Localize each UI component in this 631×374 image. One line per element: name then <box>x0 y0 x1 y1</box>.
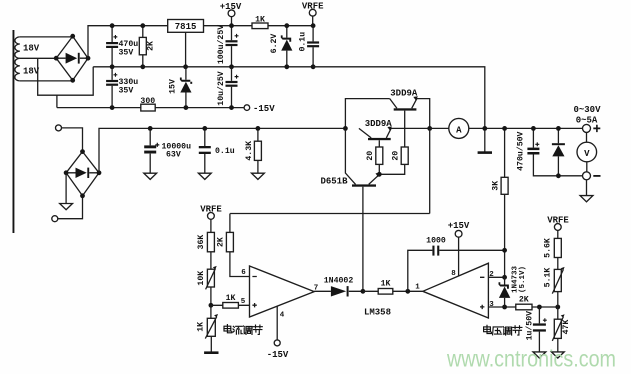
resistor 20 (right) <box>377 111 408 177</box>
svg-text:LM358: LM358 <box>364 307 391 317</box>
svg-text:D651B: D651B <box>320 177 348 187</box>
transistor Q3 D651B <box>320 128 380 186</box>
potentiometer 47K <box>552 307 571 352</box>
resistor 1K (between op-amps) <box>363 280 423 294</box>
regulator U2 7815 <box>168 20 204 70</box>
svg-text:20: 20 <box>366 151 375 161</box>
resistor 2K <box>139 23 155 69</box>
op-amp U1A <box>250 266 315 317</box>
terminal VRFE (mid) <box>200 205 222 233</box>
ground at 4.3K <box>252 173 265 179</box>
transformer winding 18V (bottom) <box>15 58 40 81</box>
ground below - output <box>580 180 593 202</box>
svg-text:35V: 35V <box>119 87 134 96</box>
wire bridge1 + output up to +raw rail <box>88 26 168 59</box>
resistor 300 <box>140 97 155 111</box>
ground at 10000u <box>144 173 157 179</box>
potentiometer 1K (current set) <box>197 305 219 354</box>
capacitor 100u/25V <box>216 25 239 69</box>
transformer core <box>13 30 15 233</box>
svg-text:1K: 1K <box>381 280 391 289</box>
zener diode 15V <box>169 67 193 110</box>
wire 0V common over to output rail <box>313 67 485 129</box>
svg-text:2K: 2K <box>147 41 156 51</box>
ground at bridge2 <box>60 173 73 210</box>
svg-text:3: 3 <box>489 301 494 309</box>
svg-text:0~30V: 0~30V <box>573 105 601 115</box>
wire center tap down and over to mid rail <box>38 58 93 95</box>
svg-text:1N4002: 1N4002 <box>324 276 354 285</box>
potentiometer 10K <box>197 266 217 308</box>
label 4.3K <box>245 126 260 161</box>
pin labels U1B: 1 2 3 8 <box>415 270 494 309</box>
wire ammeter to + output <box>469 126 583 131</box>
wire U1 pin4 to -15V <box>267 307 289 360</box>
svg-text:4: 4 <box>280 312 285 320</box>
svg-text:www.cntronics.com: www.cntronics.com <box>446 346 616 372</box>
svg-text:VRFE: VRFE <box>302 2 324 12</box>
wire feedback loop (2K top to output rail) <box>230 128 430 213</box>
svg-text:2K: 2K <box>519 296 529 305</box>
svg-text:15V: 15V <box>169 79 178 94</box>
svg-text:8: 8 <box>451 270 456 278</box>
svg-text:1K: 1K <box>255 16 265 25</box>
terminal - output <box>583 172 601 180</box>
terminal AC input b <box>52 196 83 222</box>
capacitor 1000 (feedback) <box>408 237 505 292</box>
pin labels U1A: 6 5 7 4 <box>241 269 319 320</box>
resistor 2K (voltage set) <box>516 296 560 310</box>
svg-text:-15V: -15V <box>267 350 289 360</box>
chassis bar below ammeter node <box>478 128 492 154</box>
wire winding1 top to bridge1 top corner <box>20 35 73 38</box>
resistor 20 (left) <box>366 140 383 174</box>
resistor 3K <box>491 126 508 250</box>
zener diode 6.2V <box>270 23 293 69</box>
wire pin6 to 2K <box>230 252 250 277</box>
wire output rail Q2 emitter to ammeter <box>391 127 449 129</box>
svg-text:18V: 18V <box>23 44 40 54</box>
label current-adjust (dian liu tiao jie) <box>224 325 262 335</box>
terminal AC input a <box>56 125 83 152</box>
svg-text:63V: 63V <box>166 151 181 160</box>
transistor Q1 3DD9A (upper) <box>390 89 418 111</box>
capacitor 10000u/63V <box>144 128 156 173</box>
capacitor 0.1u (control) <box>299 26 320 70</box>
resistor 36K <box>197 232 215 269</box>
capacitor 1u/50V <box>524 307 547 352</box>
svg-text:VRFE: VRFE <box>547 215 569 225</box>
capacitor 10u/25V <box>216 67 239 110</box>
svg-text:0.1u: 0.1u <box>215 147 235 156</box>
svg-text:6.2V: 6.2V <box>270 34 279 54</box>
potentiometer 5.1K <box>544 267 565 307</box>
bridge rectifier B1 <box>54 34 91 83</box>
svg-text:10K: 10K <box>197 271 206 286</box>
wire raw rail from 7815 to +15V node <box>204 25 253 27</box>
svg-text:0.1u: 0.1u <box>299 32 308 52</box>
label 0~30V 0~5A <box>573 105 601 126</box>
wire U1B pin3 row <box>488 305 515 310</box>
svg-text:1K: 1K <box>226 294 236 303</box>
wire branch down to -15V bottom rail <box>56 95 58 107</box>
watermark <box>446 346 616 372</box>
capacitor 0.1u (main) <box>199 128 211 173</box>
wire -15V bottom rail <box>57 107 244 109</box>
resistor 4.3K <box>254 128 261 173</box>
svg-text:470u/50V: 470u/50V <box>515 131 525 170</box>
transistor Q2 3DD9A (lower) <box>359 119 392 140</box>
label 10000u/63V <box>148 126 191 160</box>
svg-text:3DD9A: 3DD9A <box>390 89 418 99</box>
svg-text:5.1K: 5.1K <box>544 268 553 288</box>
wire center tap to bridge1 left corner <box>20 57 56 59</box>
op-amp U1B <box>423 263 489 318</box>
transformer winding 18V (top) <box>15 37 40 58</box>
label voltage-adjust (dian ya tiao jie) <box>484 325 522 335</box>
terminal + output <box>583 124 601 132</box>
resistor 1K (on +15V rail) <box>252 16 268 29</box>
wire Q3 base down to op-amp U1 output node <box>362 187 364 292</box>
ground at 47K <box>551 352 564 358</box>
svg-text:47K: 47K <box>562 320 571 335</box>
svg-text:10u/25V: 10u/25V <box>216 71 226 105</box>
svg-text:V: V <box>584 149 590 159</box>
svg-text:1u/50V: 1u/50V <box>524 311 534 341</box>
svg-text:5: 5 <box>241 298 246 306</box>
svg-text:(5.1V): (5.1V) <box>519 266 527 293</box>
svg-text:300: 300 <box>140 97 155 106</box>
svg-text:VRFE: VRFE <box>200 205 222 215</box>
bridge rectifier B2 <box>64 149 102 198</box>
svg-text:+15V: +15V <box>220 2 242 12</box>
wire 0V mid rail <box>93 66 313 68</box>
resistor 5.6K <box>544 238 562 269</box>
zener diode 1N4733 (5.1V) <box>499 266 528 307</box>
terminal -15V <box>244 104 275 114</box>
wire +15V rail from 1K to VRFE/0.1u <box>268 25 313 27</box>
resistor 2K (feedback) <box>217 214 234 252</box>
svg-text:1000: 1000 <box>426 237 446 246</box>
terminal +15V <box>220 2 242 28</box>
ground at 1u/50V <box>533 352 546 358</box>
wire winding2 bottom to bridge1 bottom corner <box>20 80 73 82</box>
wire Q1 emitter to output rail <box>417 99 432 131</box>
diode 1N4002 <box>314 276 365 296</box>
svg-text:3K: 3K <box>491 181 500 191</box>
terminal VRFE (top) <box>302 2 324 29</box>
ammeter A <box>449 118 469 138</box>
wire Q1 collector to common collector node <box>343 99 390 131</box>
svg-text:0~5A: 0~5A <box>576 116 598 126</box>
resistor 1K (to pin5) <box>211 294 250 308</box>
capacitor 470u/50V <box>515 126 582 176</box>
terminal +15V (U1B pin8) <box>448 221 470 276</box>
svg-text:3DD9A: 3DD9A <box>365 119 393 129</box>
terminal VRFE (right) <box>547 215 569 238</box>
capacitor 470u/35V <box>106 23 138 69</box>
svg-text:6: 6 <box>241 269 246 277</box>
svg-text:20: 20 <box>392 151 401 161</box>
capacitor 330u/35V <box>106 67 138 110</box>
wire bridge2 + up to main rail <box>99 128 345 172</box>
svg-text:4.3K: 4.3K <box>245 141 254 161</box>
svg-text:-15V: -15V <box>253 104 275 114</box>
svg-text:7815: 7815 <box>175 22 197 32</box>
label 0.1u <box>202 126 234 156</box>
voltmeter V <box>577 132 597 171</box>
svg-text:1: 1 <box>415 283 420 291</box>
diode D2 (output protection) <box>552 126 565 178</box>
svg-text:1K: 1K <box>197 322 206 332</box>
svg-text:35V: 35V <box>119 49 134 58</box>
svg-text:36K: 36K <box>197 235 206 250</box>
ground at 0.1u <box>198 173 211 179</box>
svg-text:2: 2 <box>489 271 494 279</box>
svg-text:+15V: +15V <box>448 221 470 231</box>
svg-text:A: A <box>456 125 462 135</box>
wire U1B pin2 node <box>488 248 507 280</box>
svg-text:2K: 2K <box>217 237 226 247</box>
svg-text:100u/25V: 100u/25V <box>216 25 226 64</box>
label LM358 <box>364 307 391 317</box>
svg-text:5.6K: 5.6K <box>544 238 553 258</box>
